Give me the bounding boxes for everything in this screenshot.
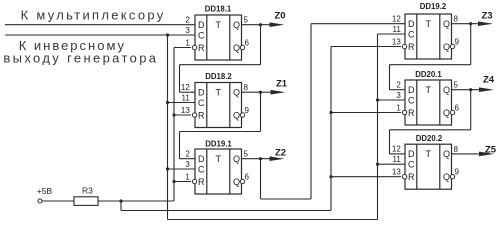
svg-text:3: 3: [185, 26, 190, 35]
wire: DD18.1 Q pin 5 output: [242, 24, 270, 26]
svg-text:DD19.2: DD19.2: [420, 2, 447, 11]
svg-text:D: D: [408, 149, 415, 159]
wire: serial input D to DD18.1 pin 2: [5, 24, 195, 26]
svg-text:D: D: [198, 88, 205, 98]
wire: resistor R3 to reset bus: [98, 200, 174, 202]
svg-text:Q: Q: [233, 43, 240, 53]
node: Z2 junction: [259, 157, 262, 160]
wire: Q4 to D5 vertical rise: [389, 65, 391, 90]
arrow: output Z5: [478, 152, 494, 157]
svg-text:6: 6: [245, 173, 250, 182]
svg-text:11: 11: [181, 93, 190, 102]
svg-text:DD20.1: DD20.1: [415, 70, 442, 79]
wire: DD18.2 Q pin 8 output: [242, 91, 270, 93]
net label "Z3": [482, 10, 493, 21]
svg-text:2: 2: [185, 150, 190, 159]
svg-text:выходу генератора: выходу генератора: [3, 51, 158, 66]
svg-text:9: 9: [245, 106, 250, 115]
wire: clock to DD19.2 pin 11: [378, 33, 406, 35]
svg-text:Z0: Z0: [275, 11, 286, 22]
svg-text:T: T: [426, 19, 432, 29]
wire: reset to DD19.1 pin 1: [174, 181, 191, 183]
resistor R3: [74, 186, 98, 206]
svg-text:6: 6: [245, 39, 250, 48]
svg-text:5: 5: [244, 150, 249, 159]
net label "Z5": [485, 145, 497, 156]
wire: Q3 to D4 vertical rise: [310, 24, 312, 199]
wire: reset to DD18.2 pin 13: [174, 114, 191, 116]
svg-text:DD19.1: DD19.1: [205, 140, 232, 149]
node: clock junction at DD19.1: [166, 167, 169, 170]
wire: into DD18.2 pin 12: [180, 91, 196, 93]
svg-text:3: 3: [396, 91, 401, 100]
svg-text:D: D: [198, 20, 205, 30]
svg-text:12: 12: [181, 83, 190, 92]
flip-flop DD19.1 (T-trigger, pins 2,3,1 / 5,6): [185, 140, 249, 195]
wire: reset stub DD18.1 pin 1: [174, 47, 191, 49]
wire: reset bottom bus: [121, 210, 331, 212]
svg-text:Q: Q: [443, 19, 450, 29]
node: clock junction at DD18.2: [166, 101, 169, 104]
svg-text:1: 1: [185, 172, 190, 181]
arrow: output Z1: [270, 90, 286, 95]
wire: Q5 to D6 vertical drop: [470, 90, 472, 130]
wire: clock to DD20.1 pin 3: [378, 99, 406, 101]
svg-text:1: 1: [396, 103, 401, 112]
svg-text:T: T: [426, 85, 432, 95]
wire: into DD19.2 pin 12: [311, 23, 405, 25]
svg-text:Z4: Z4: [483, 75, 495, 86]
svg-text:T: T: [216, 20, 222, 30]
svg-text:D: D: [198, 154, 205, 164]
node: Z0 junction: [259, 23, 262, 26]
wire: +5V to resistor R3: [42, 200, 74, 202]
svg-text:C: C: [408, 160, 415, 170]
node: clock junction at DD18.1: [166, 33, 169, 36]
svg-text:Q: Q: [443, 42, 450, 52]
wire: Q2 to D3 horizontal: [180, 131, 261, 133]
node: clock junction at DD20.1: [376, 98, 379, 101]
wire: Q1 to D2 vertical rise: [179, 65, 181, 93]
svg-text:+5В: +5В: [37, 186, 53, 196]
svg-text:1: 1: [185, 38, 190, 47]
node: reset tap junction: [119, 199, 122, 202]
svg-text:D: D: [408, 85, 415, 95]
wire: clock to DD19.1 pin 3: [168, 168, 196, 170]
net label "Z1": [276, 79, 288, 90]
svg-text:Q: Q: [443, 85, 450, 95]
svg-text:13: 13: [392, 37, 401, 46]
svg-text:C: C: [408, 95, 415, 105]
wire: Q3 to D4 bottom horizontal: [261, 198, 312, 200]
net label "Z0": [275, 11, 286, 22]
wire: into DD19.1 pin 2: [180, 158, 196, 160]
svg-text:T: T: [216, 88, 222, 98]
wire: into DD20.2 pin 12: [390, 153, 406, 155]
flip-flop DD19.2 (T-trigger, pins 12,11,13 / 8,9): [392, 2, 460, 59]
svg-text:DD20.2: DD20.2: [416, 134, 443, 143]
svg-text:R: R: [408, 42, 415, 52]
net label "К мультиплексору": [21, 8, 166, 23]
wire: clock line to DD18.1 pin 3: [5, 34, 195, 36]
svg-text:5: 5: [244, 16, 249, 25]
wire: Q1 to D2 vertical drop: [260, 25, 262, 65]
wire: Q5 to D6 vertical rise: [389, 130, 391, 154]
wire: into DD20.1 pin 2: [390, 89, 406, 91]
node: reset junction at DD20.2: [329, 175, 332, 178]
wire: DD19.1 Q pin 5 output: [242, 158, 270, 160]
svg-text:Q: Q: [233, 110, 240, 120]
flip-flop DD18.1 (T-trigger, pins 2,3,1 / 5,6): [185, 5, 249, 61]
node: reset junction at DD20.1: [329, 111, 332, 114]
wire: DD20.2 Q pin 8 output: [452, 153, 478, 155]
svg-text:Q: Q: [443, 149, 450, 159]
svg-text:К мультиплексору: К мультиплексору: [21, 8, 166, 23]
svg-text:Z5: Z5: [485, 145, 497, 156]
wire: Q4 to D5 vertical drop: [470, 24, 472, 65]
svg-text:R3: R3: [82, 186, 93, 196]
wire: Q2 to D3 vertical drop: [260, 92, 262, 131]
svg-text:11: 11: [392, 155, 401, 164]
wire: reset to DD19.2 pin 13: [331, 46, 401, 48]
node: Z3 junction: [469, 22, 472, 25]
svg-text:6: 6: [455, 104, 460, 113]
svg-text:8: 8: [454, 15, 459, 24]
svg-text:C: C: [408, 29, 415, 39]
wire: clock vertical bus (left column): [167, 35, 169, 220]
wire: reset vertical bus (left column): [173, 48, 175, 202]
svg-text:D: D: [408, 19, 415, 29]
svg-text:Q: Q: [233, 88, 240, 98]
svg-text:9: 9: [455, 168, 460, 177]
svg-text:C: C: [198, 164, 205, 174]
wire: reset tap down to bottom bus: [120, 201, 122, 211]
svg-text:R: R: [408, 108, 415, 118]
net label "Z4": [483, 75, 495, 86]
svg-text:12: 12: [392, 15, 401, 24]
svg-text:Q: Q: [233, 177, 240, 187]
svg-text:T: T: [426, 149, 432, 159]
svg-text:DD18.2: DD18.2: [205, 72, 232, 81]
arrow: output Z4: [478, 87, 494, 92]
arrow: output Z0: [270, 22, 285, 27]
svg-text:R: R: [198, 110, 205, 120]
svg-text:R: R: [198, 43, 205, 53]
net label "К инверсному выходу генератора": [3, 38, 158, 66]
svg-text:11: 11: [392, 25, 401, 34]
svg-text:R: R: [198, 177, 205, 187]
flip-flop DD20.1 (T-trigger, pins 2,3,1 / 5,6): [396, 70, 459, 125]
arrow: output Z3: [478, 21, 493, 26]
wire: reset to DD20.2 pin 13: [331, 176, 401, 178]
svg-text:2: 2: [396, 81, 401, 90]
svg-text:R: R: [408, 172, 415, 182]
node: clock junction at DD20.2: [376, 163, 379, 166]
svg-text:DD18.1: DD18.1: [205, 5, 232, 14]
wire: reset to DD20.1 pin 1: [331, 112, 401, 114]
svg-text:2: 2: [185, 16, 190, 25]
wire: Q4 to D5 horizontal: [390, 64, 471, 66]
svg-text:T: T: [216, 154, 222, 164]
svg-text:C: C: [198, 30, 205, 40]
svg-text:9: 9: [455, 38, 460, 47]
wire: DD19.2 Q pin 8 output: [452, 23, 478, 25]
arrow: output Z2: [270, 156, 285, 161]
flip-flop DD18.2 (T-trigger, pins 12,11,13 / 8,9): [181, 72, 250, 128]
wire: clock to DD18.2 pin 11: [168, 102, 196, 104]
wire: clock to DD20.2 pin 11: [378, 163, 406, 165]
svg-text:3: 3: [185, 160, 190, 169]
wire: Q3 to D4 vertical drop: [260, 159, 262, 199]
wire: Q2 to D3 vertical rise: [179, 132, 181, 159]
wire: reset vertical bus (right column): [330, 47, 332, 211]
svg-text:13: 13: [181, 106, 190, 115]
svg-text:Z1: Z1: [276, 79, 288, 90]
node: Z4 junction: [469, 88, 472, 91]
node: Z1 junction: [259, 91, 262, 94]
flip-flop DD20.2 (T-trigger, pins 12,11,13 / 8,9): [392, 134, 460, 189]
svg-text:12: 12: [392, 145, 401, 154]
wire: clock vertical bus (right column): [377, 34, 379, 220]
svg-text:8: 8: [244, 83, 249, 92]
node: reset junction at DD18.2: [172, 113, 175, 116]
wire: clock bottom bus: [168, 219, 378, 221]
power terminal "+5В": [37, 186, 53, 203]
svg-text:C: C: [198, 98, 205, 108]
svg-text:Q: Q: [233, 20, 240, 30]
node: reset junction at DD19.1: [172, 180, 175, 183]
wire: DD20.1 Q pin 5 output: [452, 89, 478, 91]
svg-text:Z2: Z2: [275, 148, 286, 159]
svg-text:Q: Q: [233, 154, 240, 164]
svg-text:13: 13: [392, 168, 401, 177]
svg-text:8: 8: [454, 145, 459, 154]
svg-text:Q: Q: [443, 108, 450, 118]
svg-text:5: 5: [454, 81, 459, 90]
svg-text:Z3: Z3: [482, 10, 493, 21]
wire: Q5 to D6 horizontal: [390, 129, 471, 131]
net label "Z2": [275, 148, 286, 159]
wire: Q1 to D2 horizontal: [180, 64, 261, 66]
svg-text:Q: Q: [443, 172, 450, 182]
